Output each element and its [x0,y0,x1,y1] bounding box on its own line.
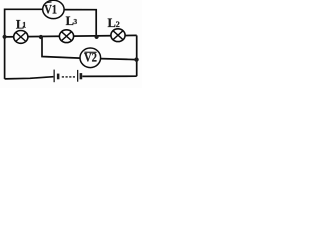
svg-text:V1: V1 [44,2,57,16]
svg-text:3: 3 [74,18,78,26]
svg-text:2: 2 [116,20,120,29]
svg-text:1: 1 [22,21,26,30]
svg-text:L: L [108,16,116,30]
